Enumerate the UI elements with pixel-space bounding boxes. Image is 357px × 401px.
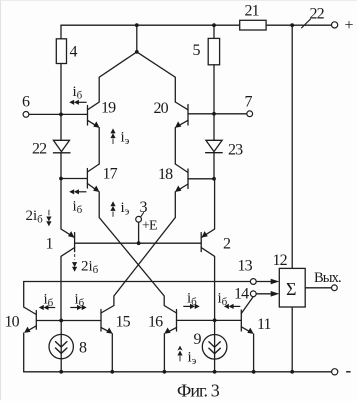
wire summer top feed — [291, 25, 293, 268]
terminal 14 — [250, 291, 256, 297]
arrow i_b at T19 (left) — [78, 101, 86, 103]
svg-text:2: 2 — [223, 236, 231, 253]
svg-text:2iб: 2iб — [81, 259, 99, 277]
current arrows — [39, 100, 241, 362]
arrow i_e bottom (up) — [179, 356, 181, 362]
current source 8 chevrons — [56, 342, 67, 354]
arrow into summer from 13 — [271, 279, 280, 285]
terminal 7 — [247, 111, 253, 117]
arrow T15 emitter — [106, 328, 112, 334]
wire x213.6 T18 node to T2 emitter — [202, 179, 215, 237]
svg-text:3: 3 — [140, 199, 148, 216]
svg-text:18: 18 — [158, 166, 173, 183]
svg-text:20: 20 — [154, 100, 169, 117]
wire T10 collector up — [24, 282, 37, 315]
diode 23 — [206, 140, 223, 152]
emitter arrowheads — [24, 121, 279, 334]
wire terminal 3 lead — [138, 222, 140, 243]
wire R5 to diode 23 — [213, 65, 215, 141]
wire bottom rail — [24, 371, 332, 373]
wire T17 collector — [87, 164, 99, 172]
node top rail / apex feed — [135, 23, 139, 27]
node top rail / R5 — [212, 23, 216, 27]
node rail T16 emitter — [163, 370, 167, 374]
svg-text:22: 22 — [310, 6, 325, 23]
svg-text:iб: iб — [75, 292, 85, 310]
svg-text:13: 13 — [238, 258, 253, 275]
svg-text:iб: iб — [73, 84, 83, 102]
wire base line T16-T11 — [177, 319, 242, 321]
transistor Q20 bar — [187, 105, 189, 126]
wire R5 top lead — [213, 25, 215, 38]
svg-text:17: 17 — [103, 166, 118, 183]
arrow T17 emitter — [93, 186, 99, 193]
svg-text:1: 1 — [46, 236, 54, 253]
arrow i_b at T16 (right) — [183, 305, 190, 307]
node T19 base — [59, 113, 63, 117]
arrow i_e at T17 (up) — [112, 211, 114, 216]
wire T2 collector down — [201, 248, 214, 321]
resistor 21 — [240, 20, 266, 30]
svg-text:+: + — [345, 17, 354, 34]
transistor Q11 bar — [240, 310, 242, 331]
arrow 2i_b upper (down) — [48, 210, 50, 216]
arrow T20 emitter — [175, 121, 181, 128]
wire T17 base — [61, 178, 87, 180]
svg-text:14: 14 — [234, 286, 249, 303]
diode 22 — [53, 140, 70, 153]
transistor Q16 bar — [176, 310, 178, 332]
node rail source9 — [213, 370, 217, 374]
wire top rail right — [266, 24, 332, 26]
node rail source8 — [59, 370, 63, 374]
svg-text:iэ: iэ — [188, 350, 197, 368]
arrow T10 emitter — [24, 327, 30, 333]
svg-text:iб: iб — [187, 291, 197, 309]
wire R4 top lead — [60, 25, 62, 39]
svg-text:iб: iб — [218, 291, 228, 309]
arrow i_b at T17 (left) — [78, 191, 86, 193]
arrow into summer from 14 — [271, 291, 280, 297]
svg-text:22: 22 — [32, 141, 47, 158]
node T17 base — [59, 177, 63, 181]
wire base line T10-T15 — [36, 320, 101, 322]
svg-text:15: 15 — [116, 314, 131, 331]
wire T20 base to output 7 — [188, 113, 247, 115]
wire base line T1-T2 — [75, 242, 202, 244]
transistor Q10 bar — [35, 311, 37, 330]
terminal 6 — [23, 112, 29, 118]
svg-text:Σ: Σ — [286, 279, 296, 299]
wire collector rail to node 13 — [24, 281, 251, 283]
arrow i_b at T11 (left) — [233, 305, 240, 307]
svg-text:23: 23 — [228, 142, 243, 159]
wire T16 emitter — [164, 328, 176, 372]
node right mirror bases — [213, 318, 217, 322]
node apex — [135, 50, 139, 54]
svg-text:Фиг. 3: Фиг. 3 — [177, 381, 220, 401]
svg-text:+E: +E — [142, 219, 157, 234]
current source 9 chevrons — [209, 342, 220, 354]
svg-text:12: 12 — [273, 252, 288, 269]
wire T18 base — [188, 178, 214, 180]
svg-text:16: 16 — [148, 314, 163, 331]
transistor Q17 bar — [86, 169, 88, 189]
node rail T15 emitter — [110, 370, 114, 374]
current source 8 — [49, 334, 73, 358]
svg-text:11: 11 — [257, 316, 272, 333]
transistor Q2 bar — [200, 233, 202, 252]
terminal 22 — [332, 22, 338, 28]
wire T17 emitter cross to T16 collector — [87, 184, 176, 314]
leader tick for 22 — [301, 19, 310, 28]
svg-text:iэ: iэ — [121, 200, 130, 218]
svg-text:8: 8 — [79, 340, 87, 357]
terminal output — [332, 285, 338, 291]
transistor Q1 bar — [74, 233, 76, 252]
wire current source 8 leads — [60, 321, 62, 372]
wire T11 emitter — [241, 327, 253, 372]
summer block 12 — [279, 268, 305, 307]
wire input 6 to T19 base — [29, 113, 88, 115]
wire summer bottom to rail — [291, 307, 293, 372]
arrow T11 emitter — [247, 328, 253, 334]
node top rail / summer feed — [290, 23, 294, 27]
wire T18 collector — [175, 164, 188, 173]
node T18 base — [212, 177, 216, 181]
transistor Q18 bar — [187, 169, 189, 189]
svg-text:6: 6 — [22, 94, 30, 111]
node rail summer — [290, 370, 294, 374]
svg-text:5: 5 — [193, 42, 201, 59]
wire T15 emitter — [101, 328, 112, 372]
wire apex from top rail — [136, 25, 138, 52]
svg-text:-: - — [346, 361, 352, 380]
transistor Q19 bar — [87, 106, 89, 126]
svg-text:iэ: iэ — [121, 130, 130, 148]
terminal minus — [332, 369, 338, 375]
wire T1 collector down — [61, 248, 75, 321]
arrow i_b at T10 (left) — [48, 307, 55, 309]
wire T10 emitter — [24, 326, 37, 372]
svg-text:iб: iб — [73, 199, 83, 217]
svg-text:Вых.: Вых. — [314, 270, 341, 286]
node terminal 3 junction — [137, 241, 141, 245]
leader tick for 3 — [141, 213, 144, 218]
arrow i_e at T19 (up) — [112, 139, 114, 144]
wire T18 emitter cross to T15 collector — [101, 184, 188, 313]
svg-text:9: 9 — [194, 331, 202, 348]
wire 13 to summer — [256, 281, 271, 283]
wire T19 collector — [88, 52, 137, 110]
wire summer output — [305, 287, 331, 289]
wire T20 collector — [175, 102, 188, 110]
wire x60 from R4 to diode 22 — [60, 64, 62, 141]
node T20 base — [212, 112, 216, 116]
terminal 3 — [136, 216, 142, 222]
svg-text:10: 10 — [5, 314, 20, 331]
arrow T18 emitter — [175, 186, 181, 193]
current source 9 — [202, 335, 227, 360]
wire 14 to summer — [256, 293, 271, 295]
wire diode23 to T18 base node — [213, 153, 215, 179]
svg-text:21: 21 — [245, 3, 260, 20]
arrow T19 emitter — [93, 121, 99, 128]
wire T20 emitter — [175, 120, 188, 164]
resistor 4 — [56, 39, 66, 64]
resistor 5 — [208, 38, 219, 64]
wire T11 collector to node 14 — [241, 297, 253, 314]
arrow i_b at T15 (right) — [70, 307, 77, 309]
arrow T16 emitter — [164, 328, 170, 334]
transistor Q15 bar — [100, 310, 102, 332]
arrow T1 emitter (into bar) — [68, 231, 74, 238]
terminal 13 — [250, 279, 256, 285]
svg-text:iб: iб — [44, 292, 54, 310]
terminals — [23, 22, 338, 375]
svg-text:2iб: 2iб — [26, 208, 44, 226]
svg-text:7: 7 — [245, 94, 253, 111]
wire top rail left — [61, 24, 240, 26]
svg-text:19: 19 — [101, 100, 116, 117]
current labels — [26, 84, 228, 367]
node left mirror bases — [59, 319, 63, 323]
svg-text:4: 4 — [70, 44, 78, 61]
wire apex to T20 collector — [137, 52, 176, 102]
wire current source 9 leads — [214, 320, 216, 372]
arrow T2 emitter (into bar) — [201, 231, 207, 238]
wire T19 emitter — [88, 120, 100, 164]
wire x60 diode to T1 emitter bend — [61, 153, 74, 237]
node dots — [59, 23, 294, 373]
arrow 2i_b lower (down) — [74, 254, 76, 260]
node rail T11 emitter — [252, 370, 256, 374]
